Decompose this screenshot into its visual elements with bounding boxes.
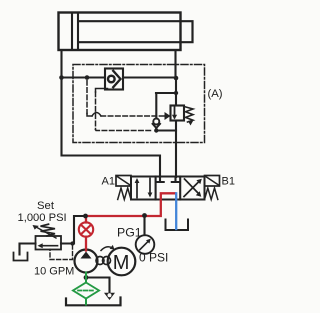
gauge PG1 needle xyxy=(140,242,148,250)
node suction tee xyxy=(84,275,89,280)
pump P1 outlet triangle xyxy=(81,252,92,259)
svg-text:Set: Set xyxy=(37,200,55,212)
filter F1 element xyxy=(78,290,94,292)
DV1 center box blocked port stubs xyxy=(156,177,163,182)
tank T3 main xyxy=(66,298,121,306)
filter F1 diamond xyxy=(73,283,99,299)
green suction line xyxy=(73,273,99,305)
node junction cap line xyxy=(59,75,64,80)
DV1 right spring xyxy=(205,188,218,200)
motor M1 body xyxy=(108,248,136,276)
wire check-valve outlet line xyxy=(123,76,176,78)
relief valve RV1 pilot dashed xyxy=(50,245,73,260)
check valve CV1 seat xyxy=(113,71,120,87)
pilot line A (to counterbalance valve) xyxy=(86,81,88,114)
svg-text:10 GPM: 10 GPM xyxy=(34,266,74,278)
shaft coupling xyxy=(96,257,104,265)
DV1 left solenoid xyxy=(116,176,131,187)
DV1 right solenoid xyxy=(205,176,220,187)
svg-text:1,000 PSI: 1,000 PSI xyxy=(18,212,67,224)
bypass check top wire xyxy=(156,92,176,94)
DV1 left spring xyxy=(118,188,131,200)
gauge PG1 stem xyxy=(143,216,145,236)
test point TP1 xyxy=(79,222,93,236)
counterbalance valve U2 pilot arrowhead xyxy=(165,112,171,120)
node pump line tap xyxy=(83,214,88,219)
blue return line xyxy=(175,193,177,229)
bypass check ball xyxy=(153,119,159,125)
gauge PG1 body xyxy=(136,235,155,254)
node bypass bottom xyxy=(154,128,158,132)
DV1 left box parallel arrows xyxy=(136,181,138,198)
red pressure line xyxy=(79,193,175,250)
cylinder C1 barrel xyxy=(59,13,181,51)
enclosure box (A) chain line xyxy=(73,65,205,143)
node bypass top xyxy=(174,91,178,95)
bypass check seat xyxy=(153,124,160,128)
relief valve RV1 spring xyxy=(41,224,56,236)
node rod line junction xyxy=(174,76,179,81)
drain arrowhead xyxy=(104,293,115,300)
tank T1 relief xyxy=(14,253,28,261)
bypass bottom wire xyxy=(156,129,176,131)
drain wire to tank xyxy=(86,278,110,294)
red pump riser xyxy=(85,216,87,251)
DV1 right box crossed arrows xyxy=(184,181,200,197)
relief valve RV1 body xyxy=(36,236,62,250)
relief valve RV1 internal arrow xyxy=(41,245,58,247)
counterbalance valve U2 body xyxy=(171,106,185,121)
pilot line B (check valve pilot) xyxy=(96,89,108,93)
wire rod-end line xyxy=(174,50,177,177)
svg-text:PG1: PG1 xyxy=(117,226,142,240)
relief outlet wire xyxy=(20,244,36,255)
bypass check valve line xyxy=(155,93,157,131)
pilot line A hop over xyxy=(92,113,101,117)
check valve CV1 ball xyxy=(108,76,115,83)
relief valve RV1 adjust arrow xyxy=(36,227,56,238)
svg-text:M: M xyxy=(113,252,130,274)
svg-text:B1: B1 xyxy=(222,176,235,188)
cylinder C1 piston xyxy=(71,13,73,50)
tank T2 valve return xyxy=(166,220,189,231)
node relief inlet xyxy=(70,241,74,245)
wire check-valve branch line xyxy=(62,76,106,78)
node pilot tap xyxy=(85,75,90,80)
wire cap-end line to valve A1 port xyxy=(62,50,161,177)
svg-text:A1: A1 xyxy=(102,176,115,188)
svg-text:(A): (A) xyxy=(208,88,223,100)
counterbalance valve U2 spring xyxy=(184,107,193,123)
rotation arrow xyxy=(101,247,113,251)
check valve CV1 body xyxy=(105,69,123,90)
pump P1 body xyxy=(75,250,98,273)
relief feed wire black xyxy=(61,216,86,244)
svg-text:0 PSI: 0 PSI xyxy=(139,250,168,264)
directional valve DV1 envelope xyxy=(131,177,205,200)
cylinder C1 rod xyxy=(79,21,193,42)
node gauge tap xyxy=(142,213,147,218)
counterbalance valve U2 internal path arrow xyxy=(174,107,176,118)
